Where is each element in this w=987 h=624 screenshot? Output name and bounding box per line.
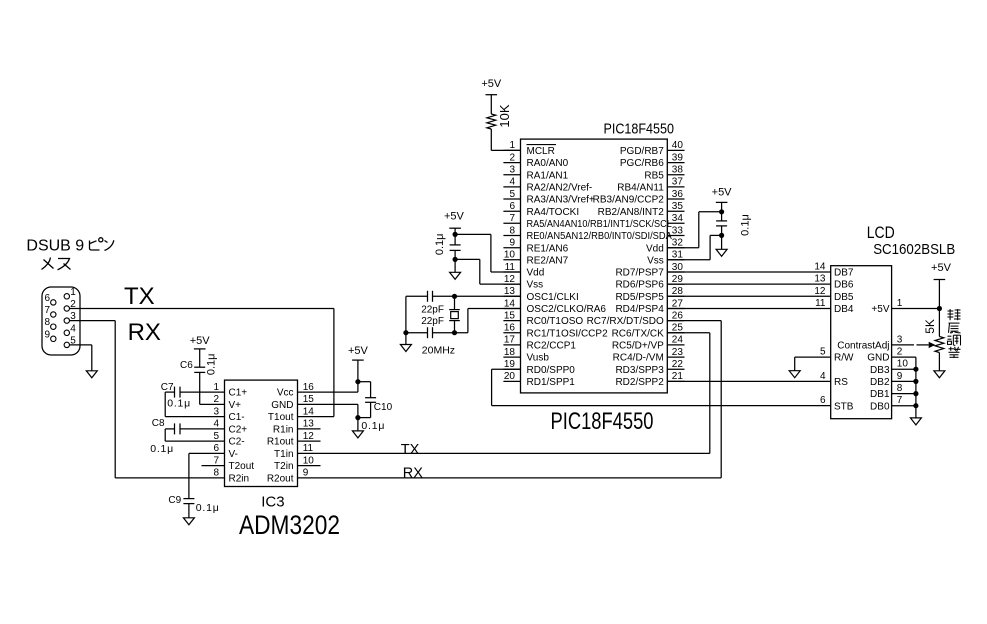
svg-text:18: 18 [504,347,516,358]
svg-text:7: 7 [213,455,219,466]
svg-text:10: 10 [303,455,315,466]
svg-text:RA2/AN2/Vref-: RA2/AN2/Vref- [527,183,593,194]
svg-text:RX: RX [403,466,423,482]
svg-text:RA1/AN1: RA1/AN1 [527,170,569,181]
svg-text:0.1μ: 0.1μ [196,502,220,514]
svg-text:5: 5 [509,189,515,200]
svg-text:6: 6 [820,395,826,406]
svg-text:C1-: C1- [229,412,245,423]
svg-text:LCD: LCD [867,223,895,242]
svg-text:OSC1/CLKI: OSC1/CLKI [527,292,579,303]
svg-text:7: 7 [897,395,903,406]
svg-text:R2in: R2in [229,474,250,485]
svg-text:RD7/PSP7: RD7/PSP7 [615,268,664,279]
svg-text:2: 2 [213,394,219,405]
svg-text:C2+: C2+ [229,425,248,436]
svg-text:RC0/T1OSO: RC0/T1OSO [527,316,584,327]
svg-text:0.1μ: 0.1μ [150,443,174,455]
svg-text:8: 8 [897,383,903,394]
svg-text:0.1μ: 0.1μ [740,214,752,236]
svg-text:R1in: R1in [273,425,294,436]
svg-text:Vss: Vss [647,255,664,266]
svg-text:TX: TX [124,283,155,310]
svg-text:23: 23 [672,347,684,358]
svg-text:DB7: DB7 [834,268,854,279]
svg-text:GND: GND [271,400,293,411]
svg-text:TX: TX [401,442,420,458]
svg-text:0.1μ: 0.1μ [167,398,191,410]
svg-text:+5V: +5V [444,211,465,223]
svg-text:RD3/SPP3: RD3/SPP3 [615,365,664,376]
svg-text:V+: V+ [229,400,242,411]
svg-text:11: 11 [815,298,826,309]
svg-text:16: 16 [504,323,516,334]
svg-text:Vusb: Vusb [527,353,550,364]
svg-text:6: 6 [213,443,219,454]
svg-text:C9: C9 [168,495,181,506]
svg-text:5K: 5K [923,319,937,334]
svg-text:DB5: DB5 [834,292,854,303]
svg-text:RE2/AN7: RE2/AN7 [527,255,569,266]
svg-text:7: 7 [509,213,515,224]
svg-text:DB4: DB4 [834,304,854,315]
svg-text:12: 12 [504,274,516,285]
svg-text:2: 2 [509,152,515,163]
svg-text:3: 3 [509,165,515,176]
svg-text:RA0/AN0: RA0/AN0 [527,158,569,169]
svg-text:30: 30 [672,262,684,273]
svg-text:C6: C6 [180,360,193,371]
svg-text:34: 34 [672,213,684,224]
svg-text:22pF: 22pF [421,316,444,327]
svg-text:0.1μ: 0.1μ [206,353,218,375]
svg-text:ADM3202: ADM3202 [239,510,340,540]
svg-text:2: 2 [897,347,903,358]
svg-text:C10: C10 [374,402,393,413]
svg-text:28: 28 [672,286,684,297]
svg-text:22pF: 22pF [421,305,444,316]
svg-text:6: 6 [509,201,515,212]
svg-text:OSC2/CLKO/RA6: OSC2/CLKO/RA6 [527,304,607,315]
svg-text:33: 33 [672,225,684,236]
svg-text:4: 4 [70,323,76,334]
svg-text:Vss: Vss [527,280,544,291]
svg-text:24: 24 [672,335,684,346]
svg-text:14: 14 [814,262,826,273]
svg-text:19: 19 [504,359,516,370]
svg-text:RB3/AN9/CCP2: RB3/AN9/CCP2 [593,195,665,206]
svg-text:RB5: RB5 [644,170,664,181]
svg-text:20: 20 [504,371,516,382]
svg-text:DB1: DB1 [870,389,890,400]
svg-text:RA3/AN3/Vref+: RA3/AN3/Vref+ [527,195,595,206]
svg-text:Vcc: Vcc [277,388,294,399]
svg-text:31: 31 [672,250,684,261]
svg-text:35: 35 [672,201,684,212]
svg-text:RD5/PSP5: RD5/PSP5 [615,292,664,303]
svg-text:9: 9 [897,371,903,382]
svg-text:39: 39 [672,152,684,163]
svg-text:GND: GND [867,353,889,364]
svg-text:12: 12 [814,286,826,297]
svg-text:RA4/TOCKI: RA4/TOCKI [527,207,580,218]
svg-text:RE1/AN6: RE1/AN6 [527,243,569,254]
svg-text:9: 9 [303,468,309,479]
svg-text:T2in: T2in [274,461,293,472]
svg-text:11: 11 [505,262,516,273]
svg-text:RD6/PSP6: RD6/PSP6 [615,280,664,291]
svg-text:0.1μ: 0.1μ [434,233,446,255]
svg-text:PGC/RB6: PGC/RB6 [620,158,664,169]
svg-text:15: 15 [504,310,516,321]
svg-text:RD1/SPP1: RD1/SPP1 [527,377,576,388]
svg-text:R1out: R1out [267,437,294,448]
svg-text:T2out: T2out [229,461,255,472]
svg-text:14: 14 [504,298,516,309]
svg-text:11: 11 [303,443,314,454]
svg-text:Vdd: Vdd [527,268,545,279]
svg-text:C8: C8 [152,418,165,429]
svg-text:26: 26 [672,310,684,321]
svg-text:4: 4 [820,371,826,382]
svg-text:5: 5 [213,431,219,442]
svg-text:3: 3 [897,334,903,345]
svg-text:+5V: +5V [712,186,733,198]
svg-text:RC6/TX/CK: RC6/TX/CK [612,328,665,339]
svg-text:27: 27 [672,298,684,309]
svg-text:1: 1 [213,382,219,393]
svg-text:RS: RS [834,377,848,388]
svg-text:MCLR: MCLR [527,146,555,157]
svg-text:25: 25 [672,323,684,334]
svg-text:9: 9 [44,329,50,340]
svg-text:PGD/RB7: PGD/RB7 [620,146,664,157]
svg-text:1: 1 [897,298,903,309]
svg-text:1: 1 [509,140,515,151]
svg-text:+5V: +5V [931,262,952,274]
svg-text:8: 8 [213,468,219,479]
svg-text:13: 13 [303,419,315,430]
svg-text:RX: RX [128,319,161,346]
svg-text:RD2/SPP2: RD2/SPP2 [615,377,664,388]
svg-text:RC2/CCP1: RC2/CCP1 [527,341,577,352]
svg-text:20MHz: 20MHz [422,345,455,357]
svg-text:DSUB 9: DSUB 9 [26,238,84,255]
svg-text:0.1μ: 0.1μ [361,420,385,432]
svg-text:C7: C7 [161,382,174,393]
svg-text:13: 13 [814,274,826,285]
svg-text:R/W: R/W [834,353,854,364]
svg-text:DB6: DB6 [834,280,854,291]
svg-text:13: 13 [504,286,516,297]
svg-text:PIC18F4550: PIC18F4550 [604,121,675,138]
svg-text:RC1/T1OSI/CCP2: RC1/T1OSI/CCP2 [527,328,609,339]
svg-text:3: 3 [213,406,219,417]
svg-text:C2-: C2- [229,437,245,448]
svg-text:RC7/RX/DT/SDO: RC7/RX/DT/SDO [587,316,664,327]
svg-text:SC1602BSLB: SC1602BSLB [873,241,955,258]
svg-text:RB4/AN11: RB4/AN11 [617,183,664,194]
svg-text:RE0/AN5AN12/RB0/INT0/SDI/SDA: RE0/AN5AN12/RB0/INT0/SDI/SDA [527,231,673,242]
svg-text:RC4/D-/VM: RC4/D-/VM [613,353,664,364]
svg-text:14: 14 [303,406,315,417]
svg-text:7: 7 [44,305,50,316]
svg-text:IC3: IC3 [261,493,284,510]
svg-text:6: 6 [44,293,50,304]
svg-text:DB3: DB3 [870,365,890,376]
svg-text:+5V: +5V [481,78,502,90]
svg-text:PIC18F4550: PIC18F4550 [551,408,654,435]
svg-text:Vdd: Vdd [646,243,664,254]
svg-text:T1in: T1in [274,449,293,460]
svg-text:37: 37 [672,177,684,188]
svg-text:8: 8 [44,317,50,328]
svg-text:10K: 10K [497,104,512,127]
svg-text:10: 10 [897,359,909,370]
svg-text:15: 15 [303,394,315,405]
svg-text:ContrastAdj: ContrastAdj [837,341,889,352]
svg-text:32: 32 [672,238,684,249]
svg-text:16: 16 [303,382,315,393]
svg-text:RD4/PSP4: RD4/PSP4 [615,304,664,315]
svg-text:R2out: R2out [267,474,294,485]
svg-text:8: 8 [509,225,515,236]
svg-text:+5V: +5V [871,304,889,315]
svg-text:12: 12 [303,431,315,442]
svg-text:29: 29 [672,274,684,285]
svg-text:1: 1 [70,287,76,298]
svg-text:RB2/AN8/INT2: RB2/AN8/INT2 [598,207,665,218]
svg-text:5: 5 [820,347,826,358]
svg-text:38: 38 [672,165,684,176]
svg-text:22: 22 [672,359,684,370]
svg-text:17: 17 [504,335,516,346]
svg-text:9: 9 [509,238,515,249]
svg-text:DB0: DB0 [870,401,890,412]
svg-text:4: 4 [213,419,219,430]
svg-text:21: 21 [672,371,684,382]
svg-text:10: 10 [504,250,516,261]
svg-text:+5V: +5V [190,335,211,347]
svg-text:4: 4 [509,177,515,188]
svg-text:36: 36 [672,189,684,200]
svg-text:T1out: T1out [268,412,294,423]
svg-text:C1+: C1+ [229,388,248,399]
svg-text:V-: V- [229,449,238,460]
svg-text:+5V: +5V [348,345,369,357]
svg-text:DB2: DB2 [870,377,890,388]
svg-text:RC5/D+/VP: RC5/D+/VP [612,341,664,352]
svg-text:STB: STB [834,401,854,412]
svg-text:40: 40 [672,140,684,151]
svg-text:RA5/AN4AN10/RB1/INT1/SCK/SCL: RA5/AN4AN10/RB1/INT1/SCK/SCL [527,219,673,230]
svg-text:RD0/SPP0: RD0/SPP0 [527,365,576,376]
